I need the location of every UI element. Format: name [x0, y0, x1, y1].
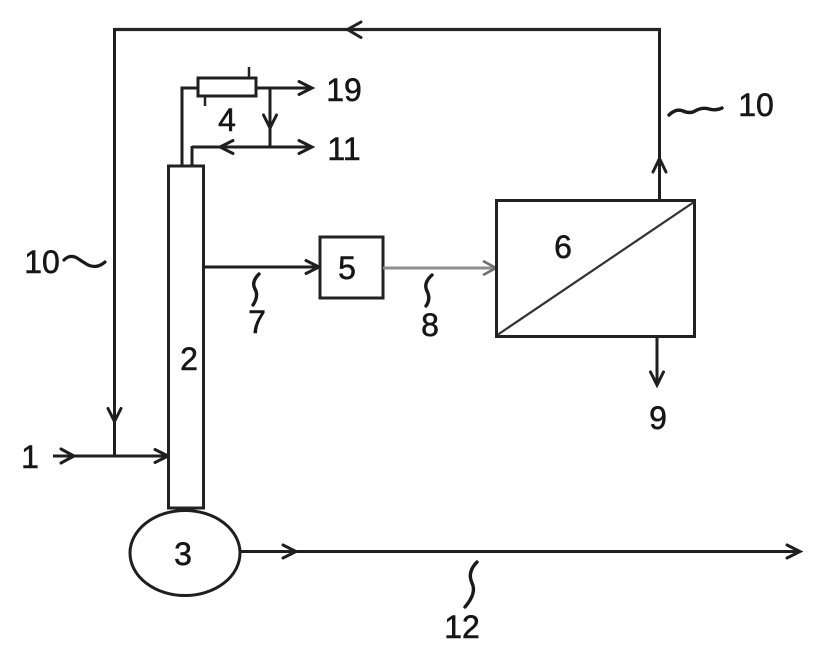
- arrowhead on line 8 at separator 6: [484, 262, 496, 275]
- svg-text:19: 19: [326, 72, 362, 108]
- svg-text:11: 11: [327, 131, 360, 167]
- svg-text:10: 10: [738, 87, 774, 123]
- wire recycle line 10 top horizontal run: [115, 28, 662, 31]
- condenser 4: [198, 78, 256, 96]
- leader squiggle for label 8: [426, 275, 432, 306]
- svg-text:1: 1: [21, 439, 39, 475]
- wire permeate line 9 down from separator 6: [656, 337, 659, 385]
- arrowhead down on line 9: [651, 372, 664, 385]
- arrowhead on feed line at column wall: [155, 450, 168, 463]
- leader squiggle for left label 10: [64, 256, 105, 266]
- arrowhead up on recycle riser: [653, 159, 666, 173]
- svg-text:4: 4: [218, 102, 236, 138]
- tick on top of condenser 4: [248, 67, 251, 78]
- wire recycle line 10 riser from separator 6 up to top run: [658, 30, 661, 202]
- wire overhead loop from column to condenser 4 left side: [182, 88, 198, 166]
- svg-text:12: 12: [444, 609, 480, 645]
- wire from condenser 4 to vent 19: [256, 87, 311, 90]
- svg-text:8: 8: [421, 307, 439, 343]
- leader squiggle for label 7: [253, 274, 259, 305]
- box 5: [320, 237, 383, 298]
- tick under condenser 4: [204, 96, 207, 106]
- svg-text:7: 7: [248, 304, 266, 340]
- feed line 1 into column: [53, 455, 167, 458]
- arrowhead mid on line 12: [283, 545, 296, 558]
- wire line 8 from box 5 to separator 6: [383, 267, 494, 270]
- svg-text:6: 6: [554, 229, 572, 265]
- arrowhead on line 7 at box 5: [306, 261, 319, 274]
- svg-text:3: 3: [174, 536, 192, 572]
- wire reflux stub into column top: [191, 146, 194, 166]
- wire bottoms line 12: [240, 550, 799, 553]
- wire side draw line 7 from column to box 5: [204, 266, 319, 269]
- column 2: [169, 166, 204, 508]
- arrowhead at end of line 12: [787, 545, 800, 558]
- svg-text:2: 2: [180, 341, 198, 377]
- arrowhead left on top run: [348, 22, 362, 38]
- pump 3: [130, 511, 240, 596]
- leader squiggle for right label 10: [669, 108, 722, 115]
- arrowhead down on left drop: [108, 409, 121, 422]
- arrowhead down on condensate drop: [264, 115, 277, 128]
- wire recycle line 10 left drop to feed junction: [113, 28, 116, 456]
- svg-text:9: 9: [649, 400, 667, 436]
- arrowhead on vent line 19: [299, 82, 312, 95]
- separator 6 membrane diagonal: [498, 202, 694, 335]
- arrowhead left on reflux part of line 11: [220, 141, 233, 154]
- wire distillate line 11: [192, 146, 311, 149]
- separator 6: [497, 201, 695, 337]
- leader squiggle for label 12: [465, 562, 477, 607]
- arrowhead right at end of line 11: [299, 141, 312, 154]
- arrowhead on feed line near label 1: [61, 449, 74, 463]
- wire condensate drop from line 19 down to line 11: [269, 88, 272, 148]
- svg-text:5: 5: [338, 250, 356, 286]
- svg-text:10: 10: [24, 244, 60, 280]
